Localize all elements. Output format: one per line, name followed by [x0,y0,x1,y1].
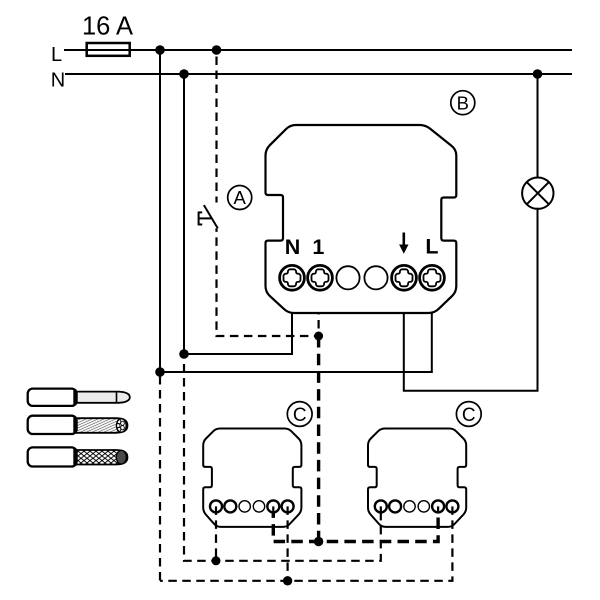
svg-text:N: N [285,235,301,259]
svg-text:1: 1 [312,235,324,259]
svg-text:L: L [51,44,62,66]
svg-text:C: C [293,405,307,426]
svg-text:C: C [462,405,476,426]
svg-text:B: B [457,92,469,113]
svg-text:A: A [234,187,247,208]
svg-text:16 A: 16 A [82,13,133,41]
svg-text:L: L [425,235,438,259]
svg-text:N: N [51,69,65,91]
